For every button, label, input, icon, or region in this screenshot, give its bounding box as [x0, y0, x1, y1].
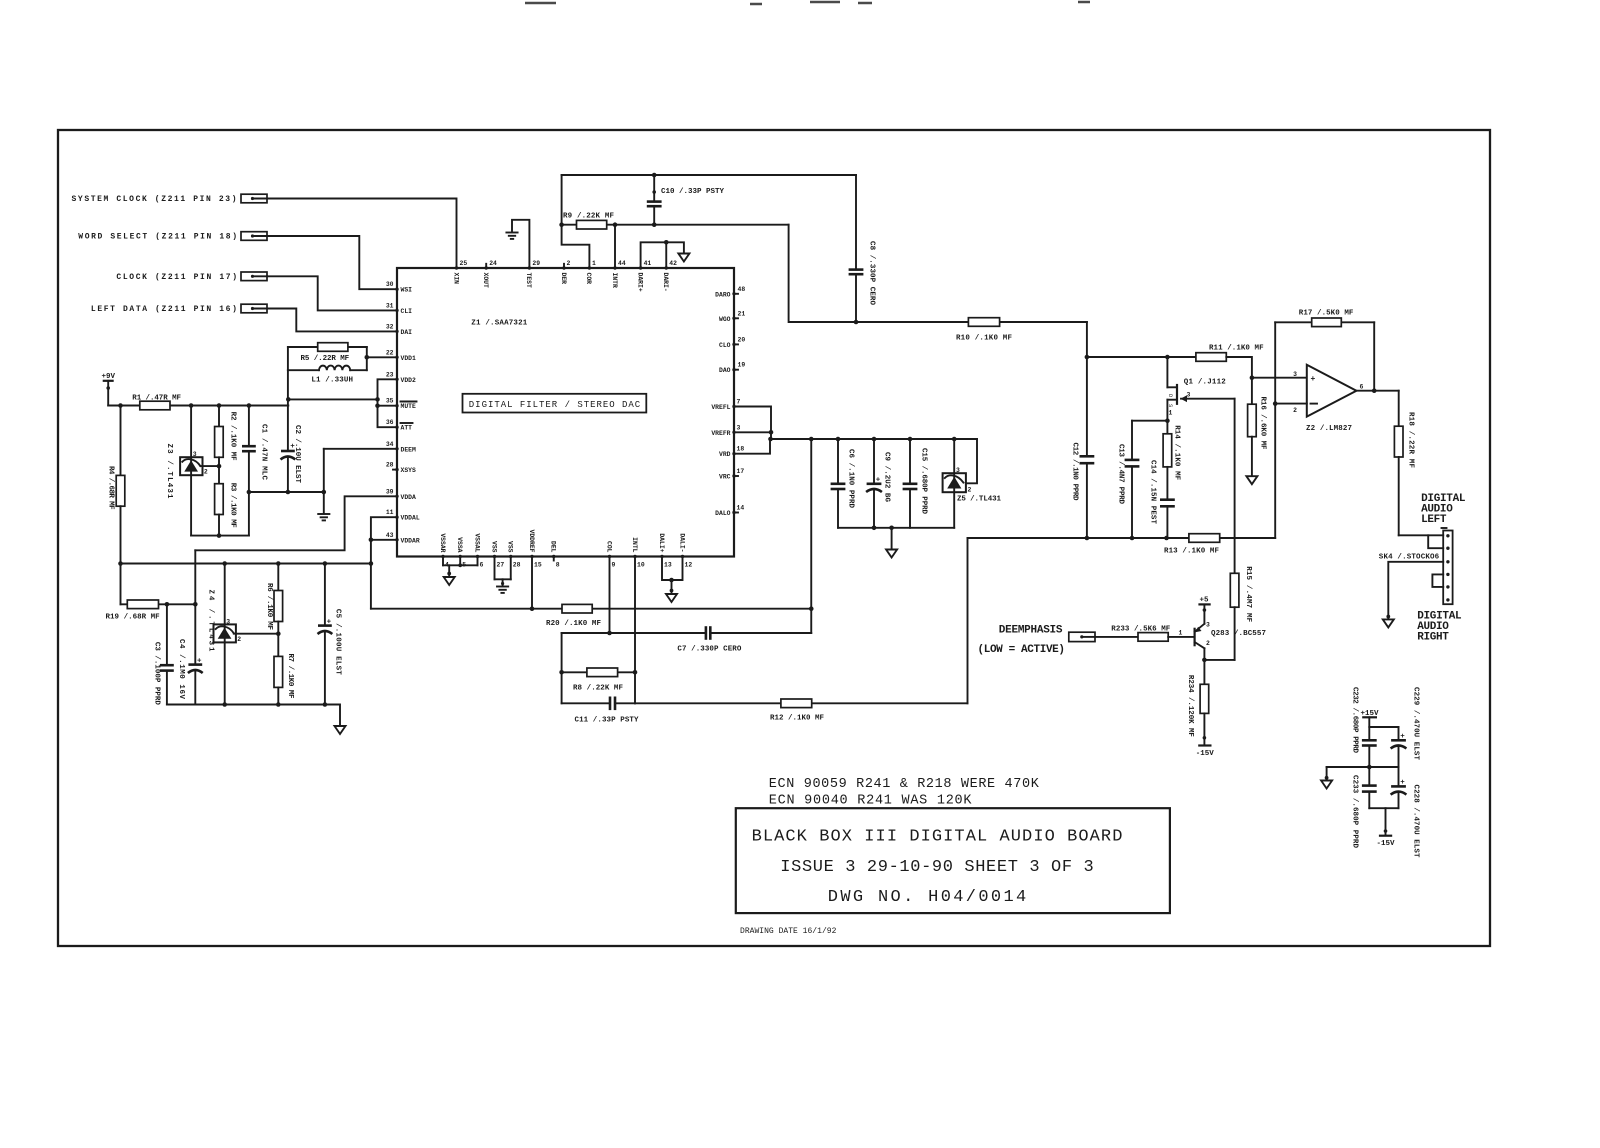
svg-text:2: 2 — [1206, 640, 1210, 647]
svg-text:42: 42 — [669, 260, 677, 267]
svg-text:WGO: WGO — [719, 316, 731, 323]
svg-text:R9 /.22K MF: R9 /.22K MF — [563, 213, 614, 221]
wire R5 L1 block verticals and VDD1 stub — [288, 347, 397, 370]
svg-text:R5 /.22R MF: R5 /.22R MF — [301, 355, 350, 363]
svg-text:INTL: INTL — [631, 537, 638, 553]
svg-text:28: 28 — [513, 562, 521, 569]
svg-text:RIGHT: RIGHT — [1417, 632, 1449, 644]
svg-text:R8 /.22K MF: R8 /.22K MF — [573, 685, 623, 693]
capacitor C2 electrolytic — [281, 370, 302, 492]
svg-text:+: + — [1400, 733, 1405, 741]
svg-text:ECN 90040 R241 WAS 120K: ECN 90040 R241 WAS 120K — [769, 793, 973, 808]
wire VREF caps bottom rail — [838, 527, 954, 529]
svg-text:DAI: DAI — [401, 329, 413, 336]
svg-text:C3 /.100P PPRD: C3 /.100P PPRD — [153, 642, 161, 705]
supply flag +5 at Q283 emitter — [1200, 597, 1210, 624]
resistor R2 — [215, 406, 237, 469]
resistor R14 — [1163, 425, 1180, 500]
svg-text:1: 1 — [1179, 630, 1183, 637]
svg-text:R12 /.1K0 MF: R12 /.1K0 MF — [770, 715, 824, 723]
ground arrow SK4 — [1383, 615, 1394, 628]
wire mid row to ground arrow — [1327, 765, 1399, 780]
svg-text:Z2 /.LM827: Z2 /.LM827 — [1306, 425, 1352, 433]
svg-text:VSS: VSS — [490, 541, 497, 553]
svg-text:VREFL: VREFL — [711, 404, 730, 411]
svg-text:INTR: INTR — [611, 273, 618, 289]
resistor R5 — [288, 343, 367, 363]
input label CLOCK (Z211 PIN 17) — [116, 272, 267, 282]
label DIGITAL AUDIO LEFT — [1421, 493, 1466, 526]
earth ground VSS — [497, 582, 508, 593]
wire VREFL VREFR box — [734, 407, 773, 440]
svg-text:7: 7 — [737, 399, 741, 406]
svg-text:C232 /.680P PPRD: C232 /.680P PPRD — [1351, 687, 1359, 753]
svg-text:R7 /.1K0 MF: R7 /.1K0 MF — [286, 654, 294, 699]
input label LEFT DATA (Z211 PIN 16) — [91, 304, 267, 314]
resistor R13 — [1164, 534, 1220, 556]
svg-text:XOUT: XOUT — [482, 273, 489, 289]
svg-text:XSYS: XSYS — [401, 467, 417, 474]
wire op-amp minus input — [1273, 322, 1307, 538]
title block box — [736, 808, 1170, 913]
svg-text:-15V: -15V — [1196, 750, 1215, 758]
svg-text:C15 /.680P PPRD: C15 /.680P PPRD — [920, 448, 928, 514]
wire analog ground row y=492 — [247, 490, 327, 495]
wire VDDA net — [195, 496, 397, 550]
svg-text:10: 10 — [637, 562, 645, 569]
svg-text:LEFT: LEFT — [1421, 514, 1447, 526]
svg-text:VREFR: VREFR — [711, 430, 730, 437]
IC bottom pin numbers and rotated names — [439, 529, 693, 568]
svg-text:DEEM: DEEM — [401, 446, 417, 453]
svg-text:31: 31 — [386, 302, 394, 309]
svg-text:27: 27 — [497, 562, 505, 569]
svg-text:C4 /.1M0 16V: C4 /.1M0 16V — [177, 639, 185, 699]
wire SK4 pins 4-5 jog — [1432, 574, 1443, 587]
svg-text:2: 2 — [1293, 407, 1297, 414]
ground arrow DARI — [678, 254, 689, 262]
svg-text:3: 3 — [956, 467, 960, 474]
wire VSSAR VSSA VSSAL bracket — [443, 557, 478, 577]
svg-text:23: 23 — [386, 371, 394, 378]
wire DEEM row to ground — [324, 449, 397, 514]
wire INTR pin up — [614, 225, 616, 268]
svg-text:48: 48 — [738, 286, 746, 293]
label DIGITAL AUDIO RIGHT — [1417, 611, 1462, 644]
resistor R18 — [1394, 412, 1414, 535]
svg-text:22: 22 — [386, 349, 394, 356]
svg-text:Z5 /.TL431: Z5 /.TL431 — [957, 496, 1001, 504]
op-amp IC Z1 SAA7321 body — [397, 268, 734, 557]
resistor R6 — [265, 564, 283, 637]
wire R20 net row — [371, 608, 811, 610]
svg-text:DALI-: DALI- — [678, 533, 685, 552]
svg-text:2: 2 — [567, 260, 571, 267]
resistor R8 — [573, 668, 623, 693]
svg-text:3: 3 — [1293, 371, 1297, 378]
svg-text:8: 8 — [556, 562, 560, 569]
regulator Z5 TL431 — [943, 439, 1002, 528]
svg-text:18: 18 — [737, 446, 745, 453]
svg-text:R2 /.1K0 MF: R2 /.1K0 MF — [229, 412, 237, 461]
svg-text:3: 3 — [1206, 622, 1210, 629]
ground arrow R16 — [1246, 476, 1257, 484]
svg-text:R19 /.68R MF: R19 /.68R MF — [106, 614, 161, 622]
resistor R9 — [559, 213, 788, 230]
svg-text:COL: COL — [605, 541, 612, 553]
svg-text:COR: COR — [585, 273, 592, 285]
svg-text:Q283 /.BC557: Q283 /.BC557 — [1211, 630, 1266, 638]
wire top horizontal net y=175 — [562, 174, 856, 176]
resistor R19 — [106, 600, 196, 622]
svg-text:R10 /.1K0 MF: R10 /.1K0 MF — [956, 335, 1012, 343]
wire R9 net down to R10 row — [789, 225, 1087, 322]
wire +9V rail to VDD2 jog — [286, 397, 380, 402]
svg-text:DALI+: DALI+ — [658, 533, 665, 552]
wire SK4 pin3 to ground — [1388, 562, 1443, 619]
svg-text:R18 /.22R MF: R18 /.22R MF — [1407, 412, 1415, 468]
IC right pin names and numbers — [711, 286, 745, 517]
svg-text:C2 /.10U ELST: C2 /.10U ELST — [293, 425, 301, 483]
svg-text:DARI-: DARI- — [662, 273, 669, 292]
capacitor C7 — [677, 626, 811, 653]
svg-text:VDD1: VDD1 — [401, 355, 417, 362]
IC left pin names and numbers — [386, 281, 420, 544]
supply flag -15V at C228 — [1377, 836, 1396, 848]
ground arrow lower-left rail — [335, 726, 346, 734]
svg-text:3: 3 — [226, 618, 230, 625]
svg-text:44: 44 — [618, 260, 626, 267]
svg-text:VDDREF: VDDREF — [528, 529, 535, 552]
node C10 top junction — [652, 173, 657, 178]
svg-text:+: + — [1311, 375, 1316, 384]
wire op-amp output row — [1356, 388, 1398, 426]
svg-text:R234 /.120K MF: R234 /.120K MF — [1186, 675, 1194, 737]
wire COL column — [607, 557, 612, 636]
svg-text:DAO: DAO — [719, 367, 731, 374]
svg-text:20: 20 — [738, 336, 746, 343]
svg-text:3: 3 — [1187, 392, 1191, 399]
svg-text:39: 39 — [386, 488, 394, 495]
IC pin dots — [395, 266, 735, 558]
IC top pin numbers and rotated names — [452, 260, 677, 292]
svg-text:+: + — [327, 619, 332, 627]
svg-text:C9 /.2U2 BG: C9 /.2U2 BG — [883, 452, 891, 502]
svg-text:VSSAR: VSSAR — [439, 533, 446, 552]
wire R1 row — [108, 405, 288, 407]
svg-text:17: 17 — [737, 468, 745, 475]
svg-text:R6 /.1K0 MF: R6 /.1K0 MF — [265, 583, 273, 630]
capacitor C228 electrolytic — [1391, 767, 1420, 858]
svg-text:CLO: CLO — [719, 342, 731, 349]
wire supply rail y=563.5 — [118, 561, 371, 566]
regulator Z3 TL431 — [165, 406, 219, 536]
wire INTL R12 row — [635, 702, 968, 704]
transistor Q283 BC557 — [1195, 622, 1266, 649]
svg-text:CLI: CLI — [401, 308, 413, 315]
capacitor C15 — [903, 439, 928, 528]
svg-text:WSI: WSI — [401, 287, 413, 294]
node R1 row junctions — [118, 403, 251, 408]
earth ground at TEST — [506, 233, 517, 239]
svg-text:C233 /.680P PPRD: C233 /.680P PPRD — [1351, 775, 1359, 848]
capacitor C13 — [1117, 418, 1170, 538]
svg-text:C6 /.1N0 PPRD: C6 /.1N0 PPRD — [847, 449, 855, 508]
svg-text:11: 11 — [386, 509, 394, 516]
resistor R234 — [1186, 660, 1209, 745]
wire VRD jog up — [734, 439, 770, 454]
wire R12 corner up to R13 net — [967, 538, 969, 703]
ground arrow DALI — [666, 594, 677, 602]
svg-text:C8 /.330P CERO: C8 /.330P CERO — [867, 241, 875, 305]
svg-text:BLACK BOX III DIGITAL AUDIO: BLACK BOX III DIGITAL AUDIO BOARD — [752, 828, 1123, 847]
svg-text:Q1 /.J112: Q1 /.J112 — [1184, 379, 1226, 387]
scan artifact dashes at top edge — [525, 2, 1090, 4]
svg-text:VDDAL: VDDAL — [401, 515, 420, 522]
svg-text:DER: DER — [560, 273, 567, 285]
wire Q283 collector row — [1202, 648, 1235, 662]
capacitor C9 electrolytic — [866, 439, 890, 530]
resistor R10 — [956, 318, 1012, 343]
node VSSA bracket dots — [447, 563, 462, 575]
svg-text:L1 /.33UH: L1 /.33UH — [311, 376, 353, 384]
svg-text:21: 21 — [738, 310, 746, 317]
connector DEEMPHASIS input box — [1069, 632, 1095, 641]
svg-text:R20 /.1K0 MF: R20 /.1K0 MF — [546, 620, 601, 628]
wire R13 net row y=538 — [968, 536, 1276, 541]
wire VDD2 MUTE ATT jog — [375, 379, 397, 427]
resistor R11 — [1196, 345, 1307, 381]
svg-text:R15 /.4M7 MF: R15 /.4M7 MF — [1244, 566, 1252, 622]
svg-text:6: 6 — [1360, 384, 1364, 391]
svg-text:C1 /.47N MLC: C1 /.47N MLC — [259, 424, 267, 480]
wire TEST pin to ground — [512, 220, 529, 268]
wire VSS pins bracket — [495, 557, 511, 587]
capacitor C1 — [242, 406, 267, 536]
wire R8 C11 block frame — [562, 633, 706, 703]
capacitor C6 — [831, 439, 855, 528]
svg-text:DEL: DEL — [550, 541, 557, 553]
svg-text:+: + — [876, 477, 881, 485]
svg-text:VDDA: VDDA — [401, 494, 417, 501]
svg-text:35: 35 — [386, 398, 394, 405]
svg-text:C12 /.1N0 PPRD: C12 /.1N0 PPRD — [1071, 443, 1079, 501]
svg-text:+5: +5 — [1200, 597, 1210, 605]
svg-text:(LOW = ACTIVE): (LOW = ACTIVE) — [978, 644, 1066, 656]
svg-text:DALO: DALO — [715, 510, 731, 517]
wire LEFT DATA to DAI — [267, 309, 397, 332]
page border frame — [58, 130, 1490, 946]
svg-text:2: 2 — [237, 636, 241, 643]
svg-text:12: 12 — [685, 562, 693, 569]
svg-text:VRD: VRD — [719, 451, 731, 458]
svg-text:ISSUE 3 29-10-90 SHEET 3 OF: ISSUE 3 29-10-90 SHEET 3 OF 3 — [780, 858, 1093, 877]
svg-text:Z4 /.TL431: Z4 /.TL431 — [207, 590, 215, 652]
svg-text:TEST: TEST — [525, 273, 532, 289]
svg-text:Z1 /.SAA7321: Z1 /.SAA7321 — [471, 320, 527, 328]
capacitor C4 electrolytic — [177, 550, 203, 704]
resistor R17 — [1275, 310, 1374, 391]
svg-text:24: 24 — [489, 260, 497, 267]
wire Q1 gate column to R15 — [1234, 399, 1236, 574]
wire DALI+ DALI- bracket to ground — [662, 557, 683, 594]
node R8 row left junction — [559, 670, 564, 675]
resistor R233 — [1095, 626, 1193, 642]
svg-text:VSS: VSS — [507, 541, 514, 553]
supply flag +9V — [102, 373, 116, 406]
svg-text:DIGITAL FILTER / STEREO DAC: DIGITAL FILTER / STEREO DAC — [469, 400, 641, 410]
wire top net to COR pin — [562, 175, 590, 268]
connector SK4 STOCKO6 — [1379, 528, 1453, 604]
capacitor C12 — [1071, 357, 1095, 538]
wire CLOCK to CLI — [267, 276, 397, 310]
wire output to SK4 connector — [1399, 535, 1444, 548]
ground arrow C232 block — [1321, 776, 1332, 789]
wire C232 C229 top jog — [1369, 726, 1398, 728]
svg-text:SYSTEM CLOCK (Z211 PIN 23): SYSTEM CLOCK (Z211 PIN 23) — [72, 195, 237, 204]
capacitor C232 — [1351, 687, 1377, 786]
wire Z3 anode bottom row — [191, 535, 249, 537]
resistor R16 — [1248, 378, 1267, 476]
svg-text:+: + — [1400, 779, 1405, 787]
svg-text:SK4 /.STOCKO6: SK4 /.STOCKO6 — [1379, 554, 1440, 562]
capacitor C3 — [153, 604, 174, 705]
svg-text:DEEMPHASIS: DEEMPHASIS — [999, 625, 1063, 637]
svg-text:3: 3 — [737, 424, 741, 431]
capacitor C11 — [575, 697, 639, 725]
svg-text:VSSA: VSSA — [456, 537, 463, 553]
input label SYSTEM CLOCK (Z211 PIN 23) — [72, 194, 268, 204]
svg-text:XIN: XIN — [452, 273, 459, 285]
svg-text:ECN 90059 R241 & R218 WERE 47: ECN 90059 R241 & R218 WERE 470K — [769, 777, 1040, 792]
supply flag -15V at R234 — [1196, 746, 1215, 758]
wire VDDREF column — [530, 557, 535, 612]
svg-text:19: 19 — [738, 362, 746, 369]
capacitor C14 — [1149, 460, 1175, 538]
supply flag +15V — [1361, 710, 1380, 740]
svg-text:VRC: VRC — [719, 474, 731, 481]
capacitor C8 — [849, 175, 876, 324]
wire VREF rail y=439 — [768, 437, 977, 442]
svg-text:C11 /.33P PSTY: C11 /.33P PSTY — [575, 717, 639, 725]
capacitor C5 electrolytic — [318, 564, 342, 707]
svg-text:R4 /.68R MF: R4 /.68R MF — [106, 466, 114, 510]
svg-text:+: + — [197, 658, 202, 666]
svg-text:WORD SELECT (Z211 PIN 18): WORD SELECT (Z211 PIN 18) — [78, 233, 237, 242]
svg-text:1: 1 — [592, 260, 596, 267]
svg-text:41: 41 — [644, 260, 652, 267]
wire INTL column — [633, 557, 638, 704]
capacitor C229 electrolytic — [1391, 687, 1420, 767]
svg-text:25: 25 — [460, 260, 468, 267]
svg-text:VDD2: VDD2 — [401, 377, 417, 384]
svg-text:R14 /.1K0 MF: R14 /.1K0 MF — [1172, 425, 1180, 480]
svg-text:28: 28 — [386, 462, 394, 469]
svg-text:R17 /.5K0 MF: R17 /.5K0 MF — [1299, 310, 1354, 318]
transistor Q1 J112 jfet — [1167, 357, 1235, 434]
svg-text:C14 /.15N PEST: C14 /.15N PEST — [1149, 460, 1157, 524]
svg-text:15: 15 — [534, 562, 542, 569]
svg-text:DARO: DARO — [715, 291, 731, 298]
capacitor C233 — [1351, 775, 1377, 848]
svg-text:VDDAR: VDDAR — [401, 537, 420, 544]
svg-text:13: 13 — [664, 562, 672, 569]
svg-text:30: 30 — [386, 281, 394, 288]
svg-text:-15V: -15V — [1377, 840, 1396, 848]
svg-text:R233 /.5K6 MF: R233 /.5K6 MF — [1111, 626, 1170, 634]
svg-text:9: 9 — [612, 562, 616, 569]
node R11 row junctions — [1085, 355, 1170, 360]
IC unconnected pin stubs — [393, 264, 738, 561]
svg-text:43: 43 — [386, 532, 394, 539]
input label WORD SELECT (Z211 PIN 18) — [78, 232, 267, 242]
wire DARI+ DARI- to ground arrow — [641, 240, 684, 268]
svg-text:C7 /.330P CERO: C7 /.330P CERO — [677, 646, 741, 654]
svg-text:36: 36 — [386, 419, 394, 426]
svg-text:DRAWING DATE 16/1/92: DRAWING DATE 16/1/92 — [740, 927, 837, 936]
label DEEMPHASIS input — [978, 625, 1066, 656]
svg-text:34: 34 — [386, 441, 394, 448]
svg-text:R16 /.6K0 MF: R16 /.6K0 MF — [1259, 397, 1267, 450]
svg-text:6: 6 — [480, 562, 484, 569]
resistor R4 — [106, 406, 124, 605]
svg-text:14: 14 — [737, 505, 745, 512]
earth ground below DEEM — [318, 514, 329, 520]
svg-text:LEFT DATA (Z211 PIN 16): LEFT DATA (Z211 PIN 16) — [91, 305, 237, 314]
op-amp Z2 LM827 — [1293, 365, 1363, 433]
wire rail ground stub — [889, 526, 894, 550]
svg-text:Z3 /.TL431: Z3 /.TL431 — [165, 444, 173, 499]
svg-text:MUTE: MUTE — [401, 403, 417, 410]
svg-text:2: 2 — [204, 468, 208, 475]
wire lower-left ground rail — [167, 705, 340, 727]
svg-text:VSSAL: VSSAL — [473, 533, 480, 552]
svg-text:DARI+: DARI+ — [636, 273, 643, 292]
wire C233 C228 bottom row — [1369, 808, 1398, 835]
box label DIGITAL FILTER / STEREO DAC — [463, 394, 647, 413]
resistor R15 — [1230, 566, 1252, 660]
resistor R1 — [132, 395, 181, 410]
svg-text:C10 /.33P PSTY: C10 /.33P PSTY — [661, 188, 724, 196]
svg-text:1: 1 — [1169, 410, 1173, 417]
svg-text:C13 /.4N7 PPRD: C13 /.4N7 PPRD — [1117, 444, 1125, 504]
svg-text:C5 /.100U ELST: C5 /.100U ELST — [334, 609, 342, 675]
wire SYSTEM CLOCK to XIN — [267, 199, 457, 269]
svg-text:C229 /.470U ELST: C229 /.470U ELST — [1412, 687, 1420, 760]
inductor L1 — [288, 366, 367, 385]
wire C7 net vertical to VREF rail — [809, 439, 814, 633]
svg-text:ATT: ATT — [401, 425, 413, 432]
wire WORD SELECT to WSI — [267, 236, 397, 289]
svg-text:R3 /.1K0 MF: R3 /.1K0 MF — [229, 483, 237, 528]
svg-text:32: 32 — [386, 323, 394, 330]
resistor R7 — [274, 634, 294, 707]
svg-text:R1 /.47R MF: R1 /.47R MF — [132, 395, 181, 403]
wire VDDAL VDDAR jog to rail — [369, 517, 397, 609]
resistor R3 — [215, 466, 237, 538]
resistor R12 — [770, 699, 824, 723]
svg-text:C228 /.470U ELST: C228 /.470U ELST — [1412, 785, 1420, 858]
svg-text:3: 3 — [193, 451, 197, 458]
node Z4 anode junction — [222, 702, 227, 707]
resistor R20 — [546, 604, 601, 628]
ground arrow VREF rail — [886, 550, 897, 558]
svg-text:R13 /.1K0 MF: R13 /.1K0 MF — [1164, 548, 1219, 556]
ground arrow VSSAR — [444, 577, 455, 585]
svg-text:R11 /.1K0 MF: R11 /.1K0 MF — [1209, 345, 1264, 353]
wire R10 corner to R11 row — [1087, 322, 1196, 357]
svg-text:29: 29 — [532, 260, 540, 267]
